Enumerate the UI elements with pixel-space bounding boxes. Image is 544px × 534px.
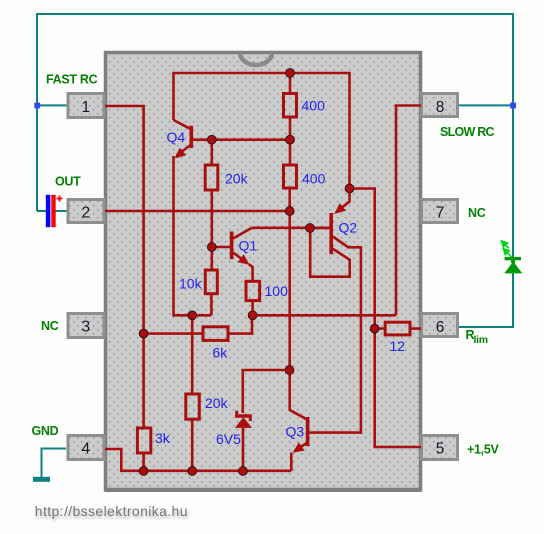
svg-text:7: 7 [436,204,445,221]
resistor 10k R4 [205,270,217,294]
wire Q3 emitter down [290,453,293,471]
wire node A to 6k [144,332,203,335]
svg-text:FAST RC: FAST RC [46,73,98,87]
resistor 20k R3 [205,165,218,190]
svg-text:GND: GND [32,424,59,438]
wire 20k2 bottom stub [191,419,194,471]
resistor 3k R8 [137,428,150,453]
green pin labels [32,73,500,457]
Q1 transistor emitter arm [233,253,248,264]
resistor 400 R2 [284,165,297,188]
wire 20k1 stubs [211,140,214,270]
svg-text:400: 400 [302,98,326,114]
notch [240,53,272,66]
wire external teal loop top/left/right [37,14,513,477]
svg-text:5: 5 [436,440,445,457]
svg-text:20k: 20k [225,171,249,187]
wire zener branch [243,370,290,413]
svg-text:+1,5V: +1,5V [467,443,499,457]
wire pin4 and bottom bus [105,449,291,471]
svg-text:http://bsselektronika.hu: http://bsselektronika.hu [35,503,188,519]
transistor Q1 [230,232,234,260]
wire pin1 to left rail [37,104,67,106]
zener diode 6V5 [235,411,252,428]
resistor 6k R6 [203,327,228,341]
IC body U1 [106,53,421,490]
node square right [510,103,516,109]
battery V1 [46,195,63,227]
pin 5 [422,436,458,460]
svg-text:OUT: OUT [55,175,81,189]
transistor Q3 [306,417,310,446]
wire Q4 emitter column [174,156,212,315]
wire 6k right link [228,315,252,333]
svg-text:4: 4 [81,440,90,457]
resistor 20k R7 [186,394,200,419]
svg-text:lim: lim [474,334,488,346]
wire pin4 to ground [42,449,67,478]
wire 289 column to Q3 [290,211,307,419]
svg-text:8: 8 [436,99,445,116]
wire battery to pin2 [55,210,68,212]
node square left [34,103,40,109]
Q3 transistor arms [295,444,307,452]
wire 100 bottom stub [251,301,254,316]
wire Q2 node to pin5 column [350,189,422,448]
svg-text:12: 12 [390,338,406,354]
wire zener to bus [242,428,245,471]
svg-text:Q1: Q1 [239,238,258,254]
svg-text:SLOW RC: SLOW RC [440,125,494,139]
svg-text:3: 3 [81,319,90,336]
transistor Q4 [190,126,194,148]
wire pin8 to right rail [459,104,513,106]
wire Q1 base [212,246,230,249]
wire pin8 [396,106,421,316]
pin 4 [68,436,104,460]
wire left rail to battery [37,210,46,212]
ground [33,477,50,482]
wire Q1 collector to Q2 base [233,228,330,239]
Q4 transistor arms [174,120,191,156]
wire 10k bottom stub [210,294,213,316]
svg-text:NC: NC [41,319,59,333]
wire Q2 collector upper to Q3 base [309,237,361,433]
pin 3 [68,314,104,338]
wire mid bus right [253,314,396,317]
transistor Q2 [329,213,333,254]
blue value labels [155,98,405,448]
wire Q4 base to 400 column [193,138,291,141]
wire 12 resistor links [375,327,421,330]
wire pin1 down-left column [105,106,144,428]
svg-text:6k: 6k [213,345,229,361]
wire Q2 emitter [336,189,350,213]
wire 3k to bottom bus [142,453,145,471]
resistor 12 R9 [385,322,410,335]
svg-text:NC: NC [468,206,486,220]
pin 6 [422,314,458,337]
svg-text:2: 2 [81,204,90,221]
svg-text:400: 400 [302,171,326,187]
pin 8 [422,94,458,117]
wire Q1 emitter to 100 [249,264,253,281]
svg-text:100: 100 [265,283,289,299]
red circuit [105,73,421,471]
svg-text:Q3: Q3 [286,424,305,440]
wire 20k2 top stub [191,315,194,394]
svg-text:Q2: Q2 [339,220,358,236]
resistor 400 R1 [284,94,297,118]
svg-text:1: 1 [81,99,90,116]
wire 400 R1 stubs [289,73,292,165]
pin 1 [68,94,104,118]
wire LED to pin6 [459,272,513,327]
pin 2 [68,200,104,223]
wire 400 R2 bottom [288,188,291,211]
svg-text:3k: 3k [155,430,171,446]
svg-text:6V5: 6V5 [216,431,241,447]
svg-text:Q4: Q4 [167,129,186,145]
LED D1 [501,241,522,274]
svg-text:6: 6 [436,319,445,336]
wire pin2 OUT line [105,210,290,213]
resistor 100 R5 [246,281,260,300]
svg-text:10k: 10k [179,276,203,292]
svg-text:20k: 20k [205,395,229,411]
wire Q2 base [310,227,330,230]
wire top bus [174,73,350,189]
pin 7 [422,200,458,223]
wire Q2 collector lower loop [310,228,350,277]
